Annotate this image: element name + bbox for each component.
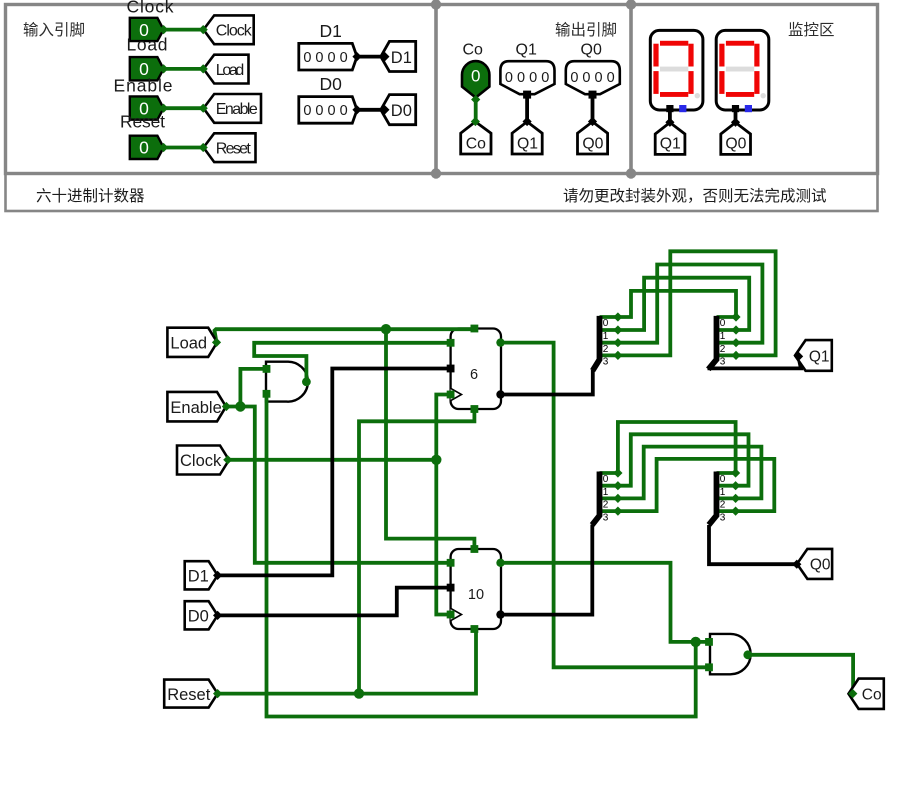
tunnel Q0 (circuit) [797, 549, 832, 579]
U2 clock port [447, 611, 455, 619]
tunnel Co tip [471, 117, 480, 126]
splitter S4 spine [709, 472, 717, 525]
tunnel D0 tip [213, 611, 222, 620]
7-segment display Q0 [716, 30, 769, 110]
tunnel Clock (circuit) [177, 446, 229, 475]
S4 leg connection [731, 507, 740, 516]
svg-text:Clock: Clock [216, 23, 253, 40]
tunnel Load (top panel) [204, 55, 249, 84]
svg-text:0: 0 [471, 67, 480, 86]
svg-text:1: 1 [603, 487, 609, 498]
and-gate G2 (carry AND) body [710, 634, 751, 674]
U2 carry out dot [496, 559, 504, 567]
wire splitter pair 2 bit 0 [600, 422, 736, 473]
tunnel D1 tip [380, 52, 389, 61]
U1 Q out dot [496, 390, 504, 398]
S4 leg connection [731, 481, 740, 490]
bus U2 Q out to splitter S3 [501, 525, 593, 615]
wire pin Enable to tunnel [164, 106, 204, 110]
pin Reset tip [159, 143, 168, 152]
svg-text:Q0: Q0 [581, 42, 602, 59]
S1 leg connection [613, 338, 622, 347]
counter U2 clock triangle [451, 608, 462, 620]
wire Enable tunnel to counter U2 enable pin [226, 407, 449, 563]
svg-text:3: 3 [720, 357, 726, 368]
svg-text:3: 3 [603, 512, 609, 523]
U2 enable port [447, 559, 455, 567]
svg-text:Q1: Q1 [809, 348, 830, 365]
frame joint dot [626, 0, 636, 10]
svg-text:Q1: Q1 [517, 136, 538, 153]
svg-text:1: 1 [720, 487, 726, 498]
Q1 probe output port [523, 91, 531, 99]
svg-text:Load: Load [127, 35, 168, 55]
U2 Q out dot [496, 610, 504, 618]
and-gate G1 (enable AND) body [266, 362, 308, 402]
svg-text:Co: Co [466, 136, 486, 153]
pin Load tip [159, 64, 168, 73]
input pin Enable [130, 96, 164, 119]
U2 clear port [471, 625, 479, 633]
svg-text:1: 1 [603, 331, 609, 342]
svg-text:0: 0 [720, 318, 726, 329]
frame joint dot [626, 168, 636, 178]
S3 leg connection [613, 507, 622, 516]
wire pin D0 to tunnel [357, 108, 385, 112]
tunnel Reset tip [213, 689, 222, 698]
svg-text:Reset: Reset [167, 686, 211, 704]
tunnel Reset tip [199, 143, 208, 152]
S1 leg connection [613, 325, 622, 334]
output pin Co (1-bit) [462, 61, 489, 97]
svg-text:0: 0 [139, 138, 149, 158]
svg-text:Load: Load [216, 62, 245, 79]
tunnel Q1 (circuit) [795, 340, 832, 371]
output probe Q1 (4-bit) [500, 61, 554, 94]
S2 leg connection [731, 325, 740, 334]
wire pin Reset to tunnel [164, 146, 204, 150]
svg-text:2: 2 [720, 500, 726, 511]
wire Load tunnel to counter U1 top pin [215, 329, 475, 342]
svg-text:0 0 0 0: 0 0 0 0 [570, 70, 614, 86]
wire splitter pair 2 bit 3 [600, 459, 775, 511]
tunnel Q0 tip [792, 560, 801, 569]
S3 leg connection [613, 494, 622, 503]
svg-text:6: 6 [470, 367, 478, 383]
U1 enable port [447, 339, 455, 347]
tunnel Clock tip [223, 455, 232, 464]
svg-text:D1: D1 [391, 49, 412, 67]
outer appearance frame [6, 5, 878, 174]
S1 leg connection [613, 351, 622, 360]
svg-text:D0: D0 [320, 74, 343, 94]
Q0 probe output port [589, 91, 597, 99]
tunnel Q0 (output panel) [578, 122, 608, 154]
wire U1 carry out to G2 input B [501, 343, 707, 668]
wire Enable branch to G1 input A [240, 369, 264, 407]
tunnel Co (output panel) [461, 122, 491, 154]
U1 clear port [471, 405, 479, 413]
wire splitter pair 2 bit 2 [600, 447, 762, 499]
tunnel D1 tip [213, 571, 222, 580]
tunnel D1 (top panel) [381, 41, 416, 71]
svg-text:Q1: Q1 [516, 42, 537, 59]
wire display Q0 to tunnel [734, 109, 738, 123]
display Q1 color port (blue) [679, 105, 686, 112]
G1 input A port [263, 365, 271, 373]
tunnel D1 (circuit) [185, 561, 218, 589]
svg-text:Co: Co [862, 687, 882, 704]
splitter S2 spine [708, 316, 716, 369]
tunnel Reset (circuit) [164, 680, 217, 708]
tunnel D0 tip [380, 105, 389, 114]
tunnel Load tip [199, 64, 208, 73]
splitter S3 spine [592, 472, 599, 525]
wire splitter pair 1 bit 2 [600, 265, 763, 343]
svg-text:Reset: Reset [120, 112, 165, 132]
bus splitter S2 to tunnel Q1 [708, 358, 801, 369]
input pin D0 (4-bit) [299, 97, 357, 124]
wire G1 output to counter U1 enable pin [254, 343, 449, 382]
junction Clock line [431, 455, 441, 465]
U1 load port [471, 325, 479, 333]
wire G2 output to Co tunnel [748, 655, 853, 692]
tunnel Q1 (monitor) [655, 123, 685, 155]
G1 output dot [302, 377, 311, 386]
counter U2 (mod 10) body [451, 549, 501, 629]
tunnel Clock tip [199, 25, 208, 34]
panel divider 2 [629, 5, 633, 174]
wire carry U2 to G1 input B (long run) [267, 396, 696, 717]
svg-text:监控区: 监控区 [788, 21, 835, 39]
junction carry U2 line [691, 637, 701, 647]
wire Load branch to counter U2 top pin [386, 329, 474, 547]
tunnel D0 (top panel) [381, 95, 416, 125]
U1 clock port [447, 391, 455, 399]
input pin Reset [130, 136, 164, 159]
G1 input B port [263, 390, 271, 398]
frame joint dot [431, 0, 441, 10]
svg-text:六十进制计数器: 六十进制计数器 [36, 187, 145, 205]
svg-text:2: 2 [603, 500, 609, 511]
wire pin Load to tunnel [164, 67, 204, 71]
pin D1 tip [352, 52, 361, 61]
svg-text:3: 3 [603, 357, 609, 368]
svg-text:Enable: Enable [216, 101, 258, 118]
tunnel Load (circuit) [167, 328, 217, 357]
wire display Q1 to tunnel [668, 109, 672, 123]
svg-text:0: 0 [603, 318, 609, 329]
wire splitter pair 1 bit 0 [600, 291, 737, 317]
output probe Q0 (4-bit) [566, 61, 620, 94]
svg-text:1: 1 [720, 331, 726, 342]
tunnel Q0 tip [731, 118, 740, 127]
wire splitter pair 2 bit 1 [600, 434, 749, 485]
junction Enable line [235, 401, 245, 411]
tunnel Enable tip [199, 104, 208, 113]
display Q0 color port (blue) [745, 105, 752, 112]
bus splitter S4 to tunnel Q0 [709, 525, 795, 564]
wire splitter pair 1 bit 3 [600, 251, 776, 355]
svg-text:Clock: Clock [180, 452, 222, 470]
svg-text:Q0: Q0 [725, 136, 746, 153]
svg-text:Reset: Reset [216, 141, 252, 158]
tunnel D0 (circuit) [185, 601, 218, 629]
svg-text:2: 2 [720, 344, 726, 355]
svg-text:输出引脚: 输出引脚 [555, 21, 617, 39]
display Q1 input port [666, 105, 673, 112]
input pin Load [130, 57, 164, 80]
counter U1 (mod 6) body [451, 329, 501, 410]
wire Clock tunnel to clock trunk [228, 458, 436, 462]
svg-text:D1: D1 [320, 21, 342, 41]
tunnel Q0 (monitor) [721, 123, 751, 155]
S4 leg connection [731, 468, 740, 477]
tunnel Q1 tip [794, 352, 803, 361]
wire Q1 probe to tunnel [525, 94, 529, 122]
S2 leg connection [731, 351, 740, 360]
tunnel Enable (top panel) [204, 94, 262, 123]
svg-text:0 0 0 0: 0 0 0 0 [303, 50, 347, 66]
svg-text:Load: Load [170, 335, 207, 353]
svg-text:Q0: Q0 [582, 136, 603, 153]
svg-text:D0: D0 [188, 608, 209, 626]
wire U1 clear pin to Reset line [359, 409, 474, 694]
panel divider 1 [434, 5, 438, 174]
svg-text:2: 2 [603, 344, 609, 355]
svg-text:0 0 0 0: 0 0 0 0 [505, 70, 549, 86]
tunnel Enable tip [222, 402, 231, 411]
svg-text:0: 0 [603, 474, 609, 485]
S2 leg connection [731, 312, 740, 321]
S4 leg connection [731, 494, 740, 503]
svg-text:Q0: Q0 [810, 557, 831, 574]
tunnel Reset (top panel) [204, 133, 256, 162]
label bar frame [6, 174, 878, 212]
tunnel Clock (top panel) [204, 15, 254, 44]
wire pin D1 to tunnel [357, 55, 385, 59]
display Q0 input port [732, 105, 739, 112]
U2 data port [447, 584, 455, 592]
tunnel Enable (circuit) [167, 392, 226, 422]
pin D0 tip [352, 105, 361, 114]
input pin Clock [130, 18, 164, 41]
S3 leg connection [613, 468, 622, 477]
frame joint dot [431, 168, 441, 178]
tunnel Q1 (output panel) [512, 122, 542, 154]
G2 output dot [743, 650, 752, 659]
tunnel Q1 tip [523, 117, 532, 126]
svg-text:Clock: Clock [127, 0, 174, 17]
svg-text:0 0 0 0: 0 0 0 0 [303, 103, 347, 119]
S3 leg connection [613, 481, 622, 490]
wire U2 carry out to G2 input A [501, 563, 707, 642]
junction Reset line [354, 688, 364, 698]
tunnel Q1 tip [665, 118, 674, 127]
bus U1 Q out to splitter S1 [501, 370, 593, 395]
svg-text:0: 0 [720, 474, 726, 485]
tunnel Co (circuit) [849, 679, 884, 709]
tunnel Load tip [212, 338, 221, 347]
U1 carry out dot [496, 338, 504, 346]
U2 load port [471, 545, 479, 553]
splitter S1 spine [593, 316, 600, 371]
wire clock trunk to U1 and U2 clock pins [436, 395, 450, 615]
pin Enable tip [159, 104, 168, 113]
svg-text:Co: Co [463, 42, 484, 59]
svg-text:输入引脚: 输入引脚 [23, 21, 85, 39]
G2 input A port [705, 638, 713, 646]
svg-text:10: 10 [468, 587, 484, 603]
wire Co pin to tunnel [474, 98, 478, 122]
wire splitter pair 1 bit 1 [600, 278, 750, 330]
pin Clock tip [159, 25, 168, 34]
input pin D1 (4-bit) [299, 43, 357, 70]
svg-text:D1: D1 [188, 568, 209, 586]
wire Q0 probe to tunnel [591, 94, 595, 122]
wire Reset tunnel to U2 clear pin [218, 631, 476, 694]
svg-text:Enable: Enable [170, 399, 221, 417]
bus D1 tunnel to counter U1 data in [218, 369, 449, 576]
junction Load line [381, 324, 391, 334]
svg-text:3: 3 [720, 512, 726, 523]
Co pin tip [471, 95, 480, 104]
U1 data port [447, 365, 455, 373]
svg-text:请勿更改封装外观，否则无法完成测试: 请勿更改封装外观，否则无法完成测试 [563, 187, 827, 205]
svg-text:D0: D0 [391, 102, 412, 120]
svg-text:Q1: Q1 [660, 136, 681, 153]
G2 input B port [705, 663, 713, 671]
tunnel Q0 tip [588, 117, 597, 126]
wire pin Clock to tunnel [164, 28, 204, 32]
counter U1 clock triangle [451, 388, 462, 400]
S2 leg connection [731, 338, 740, 347]
bus D0 tunnel to counter U2 data in [218, 588, 449, 616]
7-segment display Q1 [650, 30, 703, 110]
tunnel Co tip [848, 689, 857, 698]
svg-text:Enable: Enable [114, 76, 173, 96]
S1 leg connection [613, 312, 622, 321]
